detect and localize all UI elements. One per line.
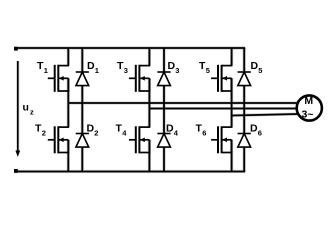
svg-text:z: z	[30, 108, 34, 117]
svg-text:2: 2	[94, 129, 98, 138]
svg-text:6: 6	[258, 129, 262, 138]
svg-text:5: 5	[258, 66, 262, 75]
svg-text:M: M	[304, 95, 313, 107]
svg-text:u: u	[23, 102, 29, 114]
svg-text:6: 6	[202, 129, 206, 138]
svg-text:2: 2	[42, 129, 46, 138]
svg-text:5: 5	[206, 66, 210, 75]
svg-text:1: 1	[44, 66, 48, 75]
svg-text:1: 1	[95, 66, 99, 75]
svg-text:3~: 3~	[302, 108, 314, 120]
svg-text:3: 3	[124, 66, 128, 75]
svg-text:3: 3	[175, 66, 179, 75]
